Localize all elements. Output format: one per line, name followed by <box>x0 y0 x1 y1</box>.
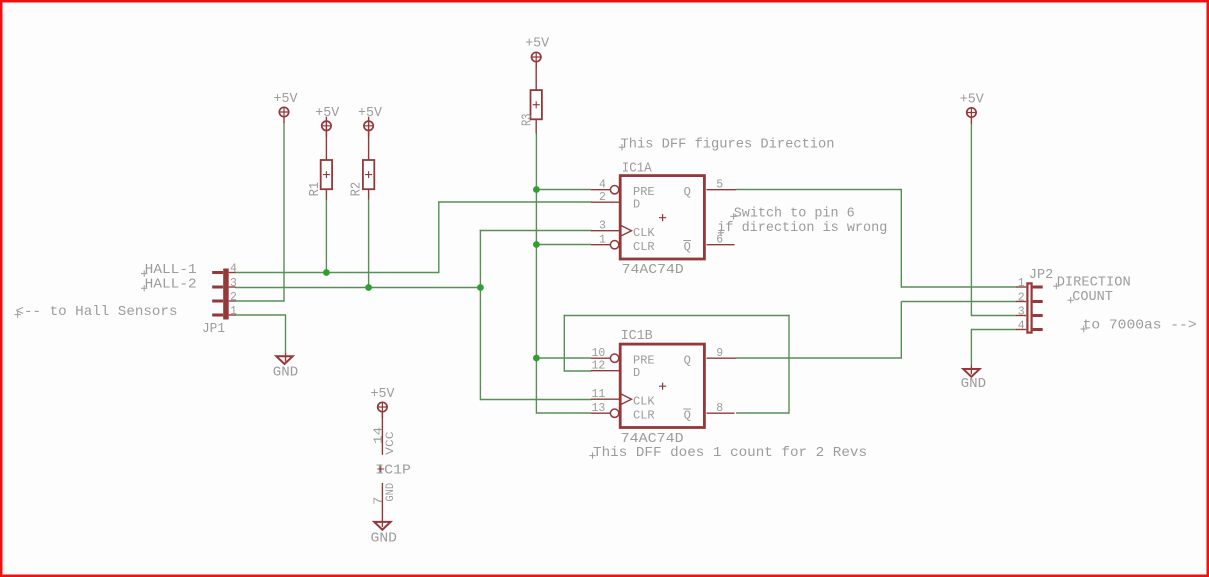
svg-text:to 7000as -->: to 7000as --> <box>1083 318 1197 334</box>
svg-text:HALL-2: HALL-2 <box>145 277 197 293</box>
svg-text:+5V: +5V <box>960 92 985 108</box>
svg-text:2: 2 <box>1018 292 1025 305</box>
svg-text:JP1: JP1 <box>202 321 225 337</box>
svg-text:CLK: CLK <box>633 395 655 409</box>
svg-text:GND: GND <box>371 531 398 547</box>
svg-text:7: 7 <box>372 497 386 505</box>
svg-text:1: 1 <box>230 305 237 318</box>
svg-text:VCC: VCC <box>385 431 397 455</box>
svg-text:+5V: +5V <box>358 105 383 121</box>
svg-text:IC1B: IC1B <box>621 328 653 344</box>
svg-text:GND: GND <box>385 483 397 502</box>
svg-text:74AC74D: 74AC74D <box>622 262 684 278</box>
svg-text:<-- to Hall Sensors: <-- to Hall Sensors <box>16 304 178 320</box>
svg-text:3: 3 <box>230 277 237 290</box>
svg-text:CLR: CLR <box>633 240 655 254</box>
svg-text:Switch to pin 6: Switch to pin 6 <box>734 205 855 221</box>
svg-text:IC1A: IC1A <box>622 160 653 176</box>
svg-text:R2: R2 <box>348 182 364 197</box>
svg-text:R1: R1 <box>307 182 323 197</box>
svg-text:+5V: +5V <box>315 105 340 121</box>
svg-text:14: 14 <box>372 427 386 444</box>
svg-text:JP2: JP2 <box>1029 267 1053 283</box>
svg-text:GND: GND <box>273 365 298 381</box>
svg-text:COUNT: COUNT <box>1072 289 1113 305</box>
svg-text:D: D <box>633 366 640 380</box>
svg-text:CLR: CLR <box>633 409 655 423</box>
svg-text:+5V: +5V <box>371 386 396 402</box>
svg-text:Q: Q <box>684 185 691 199</box>
svg-text:Q: Q <box>684 354 691 368</box>
svg-text:+5V: +5V <box>525 36 550 52</box>
svg-text:8: 8 <box>716 402 723 415</box>
svg-text:GND: GND <box>961 376 987 392</box>
svg-text:This DFF figures Direction: This DFF figures Direction <box>621 136 835 152</box>
svg-text:9: 9 <box>716 347 723 360</box>
svg-text:Q: Q <box>684 409 691 423</box>
svg-text:if direction is wrong: if direction is wrong <box>717 220 887 236</box>
svg-text:CLK: CLK <box>633 226 655 240</box>
svg-text:4: 4 <box>230 262 237 275</box>
svg-text:D: D <box>633 198 640 212</box>
svg-text:This DFF does 1 count for 2 Re: This DFF does 1 count for 2 Revs <box>593 445 867 461</box>
svg-text:R3: R3 <box>519 114 535 127</box>
svg-text:1: 1 <box>1018 277 1025 290</box>
svg-text:+5V: +5V <box>274 91 299 107</box>
svg-text:Q: Q <box>684 240 691 254</box>
svg-text:5: 5 <box>716 179 723 192</box>
svg-text:3: 3 <box>1018 306 1025 319</box>
svg-text:4: 4 <box>1018 320 1025 333</box>
svg-text:2: 2 <box>230 291 237 304</box>
